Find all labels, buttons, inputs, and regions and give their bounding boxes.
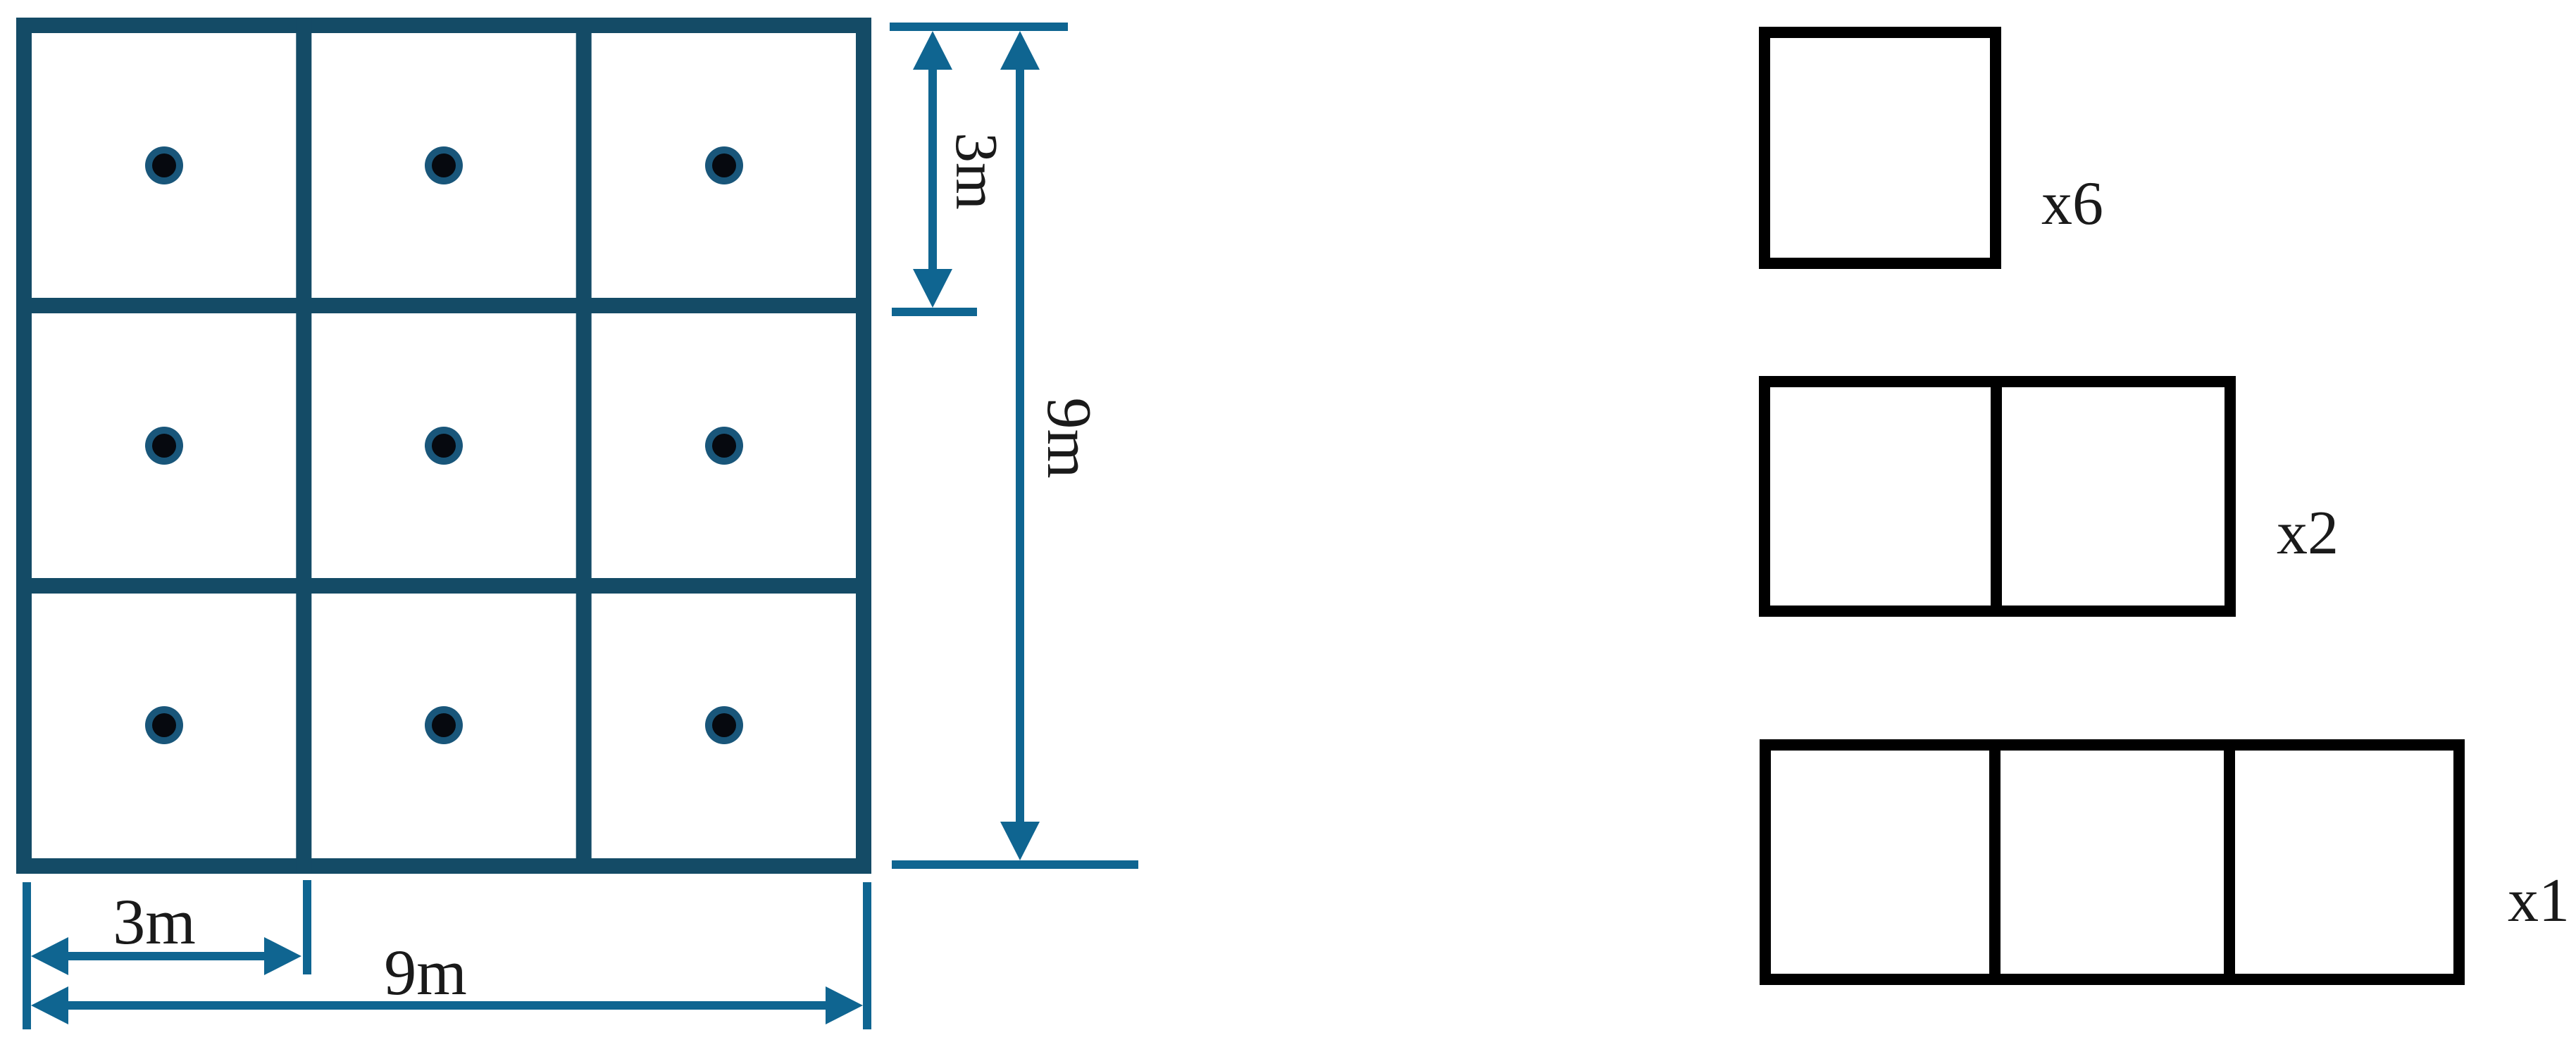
grid inner horizontal line 1: [16, 298, 871, 313]
dot row3 col3: [705, 706, 743, 744]
svg-text:9m: 9m: [1034, 397, 1104, 478]
dot row2 col3: [705, 427, 743, 465]
dot row3 col1: [145, 706, 183, 744]
dot row2 col1: [145, 427, 183, 465]
dim horizontal 3m arrow: [31, 937, 301, 975]
dim right tick (below grid): [863, 882, 871, 1029]
grid inner horizontal line 2: [16, 578, 871, 594]
grid inner vertical line 2: [576, 18, 592, 874]
dim middle tick (below grid): [303, 880, 311, 974]
dim vertical 3m arrow: [913, 31, 952, 308]
svg-text:3m: 3m: [943, 132, 1011, 210]
dim 3m right-top tick (bottom): [892, 308, 977, 316]
svg-text:9m: 9m: [384, 936, 467, 1008]
dim 9m bottom tick: [892, 860, 1138, 869]
dot row1 col3: [705, 146, 743, 184]
grid inner vertical line 1: [296, 18, 311, 874]
dot row3 col2: [425, 706, 463, 744]
3x3 grid outer border: [24, 25, 864, 866]
dim top tick: [890, 23, 1068, 31]
dim horizontal 9m arrow: [31, 986, 863, 1024]
svg-text:x1: x1: [2508, 867, 2570, 935]
dim vertical 9m arrow: [1000, 31, 1040, 860]
dot row1 col1: [145, 146, 183, 184]
svg-text:3m: 3m: [113, 886, 196, 958]
svg-text:x6: x6: [2041, 170, 2103, 238]
module square x6: [1765, 32, 1996, 263]
dot row1 col2: [425, 146, 463, 184]
module rect x1: [1765, 739, 2459, 985]
dim left tick (below grid): [23, 882, 31, 1029]
dot row2 col2: [425, 427, 463, 465]
svg-text:x2: x2: [2277, 499, 2339, 567]
module rect x2: [1765, 376, 2230, 617]
